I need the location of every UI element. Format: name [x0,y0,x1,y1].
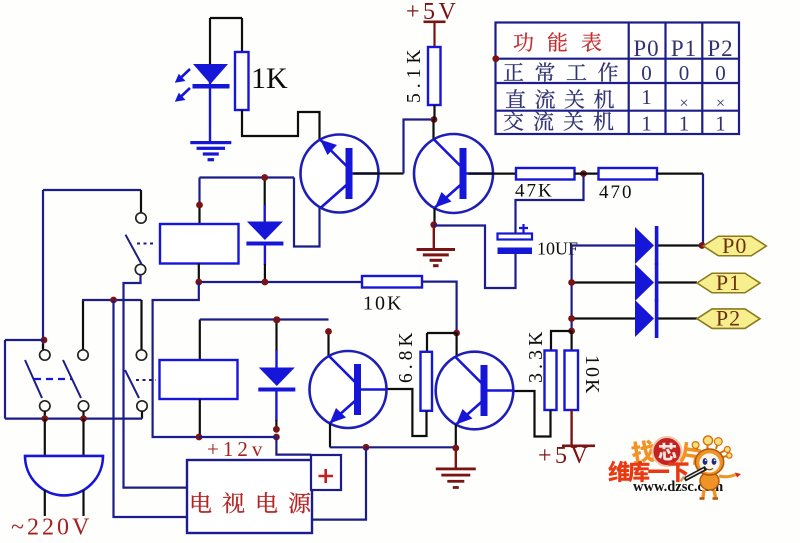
wire [702,174,704,246]
switch S1 [136,213,146,223]
diode D5 [635,300,654,337]
svg-text:+5V: +5V [538,443,591,469]
table title [514,33,533,52]
node A [431,116,438,123]
wire [657,173,703,175]
svg-text:1: 1 [641,112,652,136]
svg-text:×: × [679,95,688,112]
wire [455,425,457,448]
resistor R7 3.3K [545,351,557,411]
wire [658,244,703,246]
svg-text:6.8K: 6.8K [396,329,417,383]
mascot [696,443,728,457]
switch S4 [140,300,142,350]
ground [455,448,457,468]
wire [199,436,276,438]
transistor Q4 [436,352,514,430]
node [273,434,280,441]
wire [242,110,320,140]
wire [570,246,572,332]
wire [44,411,46,419]
switch link [34,378,72,380]
svg-text:1: 1 [715,112,726,136]
wire [427,332,457,334]
wire [140,190,142,213]
node [262,279,269,286]
wm find [630,439,656,465]
wire [570,331,572,351]
node [580,170,587,177]
capacitor C1 10UF [498,234,533,240]
wire [516,174,584,234]
wire [153,282,199,437]
wire [294,178,320,247]
node [492,55,499,62]
node [568,279,575,286]
switch S2 [42,344,44,350]
wire [275,391,277,421]
diode D2 [247,222,283,241]
LED D1 [193,64,228,84]
svg-text:×: × [716,95,725,112]
port P2 [697,309,760,329]
svg-text:~220V: ~220V [11,515,92,541]
wire [210,17,242,19]
node [274,316,281,323]
wire [404,120,435,174]
wire [198,178,200,206]
wire [200,176,295,178]
resistor R4 470 [599,168,658,180]
node [195,279,202,286]
wire [354,172,404,174]
wire [276,437,311,455]
wire [658,317,697,319]
box TV power [187,460,312,533]
wire [432,120,434,141]
label + [319,469,334,483]
node [41,415,48,422]
relay K2 [160,360,238,399]
svg-text:1: 1 [641,85,652,109]
svg-text:3.3K: 3.3K [525,328,547,383]
wire [199,281,362,283]
wire [433,105,435,120]
resistor R6 6.8K [421,352,433,411]
wire [200,318,329,320]
wire [329,424,331,448]
svg-text:10K: 10K [581,355,603,395]
resistor R1 1K [235,52,249,110]
wire [572,281,635,283]
diode D3 [635,227,654,264]
svg-text:0: 0 [641,61,652,85]
wire [434,226,516,289]
plus box [311,455,341,490]
wire [264,245,266,265]
ground [190,141,231,144]
wire [491,391,551,437]
wire [114,300,188,517]
wire [312,447,366,519]
node [196,202,203,209]
svg-text:P2: P2 [707,36,733,61]
transistor Q3 [310,351,387,428]
transistor Q1 [301,135,379,213]
wire [198,264,200,283]
wire [469,173,517,175]
wire [572,317,635,319]
svg-text:P1: P1 [716,270,741,295]
resistor R2 5.1K [428,47,441,105]
svg-text:0: 0 [715,61,726,85]
wire [43,189,141,191]
wire [82,299,142,301]
table r2 [506,89,525,108]
node [261,174,268,181]
node [699,242,706,249]
relay K1 [160,224,239,264]
node [80,415,87,422]
wire [422,282,457,333]
node [325,328,332,335]
table r3 [504,111,524,130]
node [110,297,117,304]
svg-text:P1: P1 [671,36,697,61]
wire [572,244,635,246]
ground [433,225,435,248]
svg-text:47K: 47K [515,181,554,202]
wire [264,178,266,207]
svg-text:P0: P0 [633,36,659,61]
wm circle [653,437,682,466]
switch S3 [82,300,84,350]
node [273,426,280,433]
LED arrows [175,69,190,102]
node [568,328,575,335]
port P0 [703,236,766,256]
wire [199,399,201,437]
power +5V [570,410,572,445]
transistor Q2 [414,134,493,213]
table [496,23,740,135]
svg-text:P2: P2 [716,306,741,331]
wire [44,419,46,456]
node [41,337,48,344]
table r1 [504,63,523,81]
wire [433,208,435,225]
port P1 [697,273,760,293]
wire [44,490,46,516]
wire [330,446,456,448]
svg-text:1: 1 [679,112,690,136]
svg-text:470: 470 [599,182,634,203]
wire [5,339,44,341]
wire [199,320,201,361]
resistor R5 10K [362,276,422,288]
wire [363,389,427,436]
svg-text:10K: 10K [363,293,403,315]
node [273,316,280,323]
node [453,330,460,337]
node [430,221,437,228]
plug [25,456,103,496]
wire [575,173,599,175]
svg-text:+12v: +12v [207,437,266,461]
resistor R3 47K [516,168,575,180]
wire [124,275,188,488]
label [192,492,211,513]
wire [327,332,329,358]
resistor R8 10K [565,351,579,411]
node [452,445,459,452]
diode D6 [259,368,295,387]
node [568,315,575,322]
svg-text:1K: 1K [251,62,288,95]
wm weiku [608,461,630,483]
diode D4 [635,264,654,301]
svg-text:5.1K: 5.1K [404,45,425,103]
svg-text:0: 0 [679,61,690,85]
node [363,444,370,451]
wire [275,320,277,351]
node [196,434,203,441]
wire [456,333,458,356]
wire [5,418,142,420]
wire [551,331,572,351]
wire [658,281,697,283]
svg-text:P0: P0 [722,233,747,258]
